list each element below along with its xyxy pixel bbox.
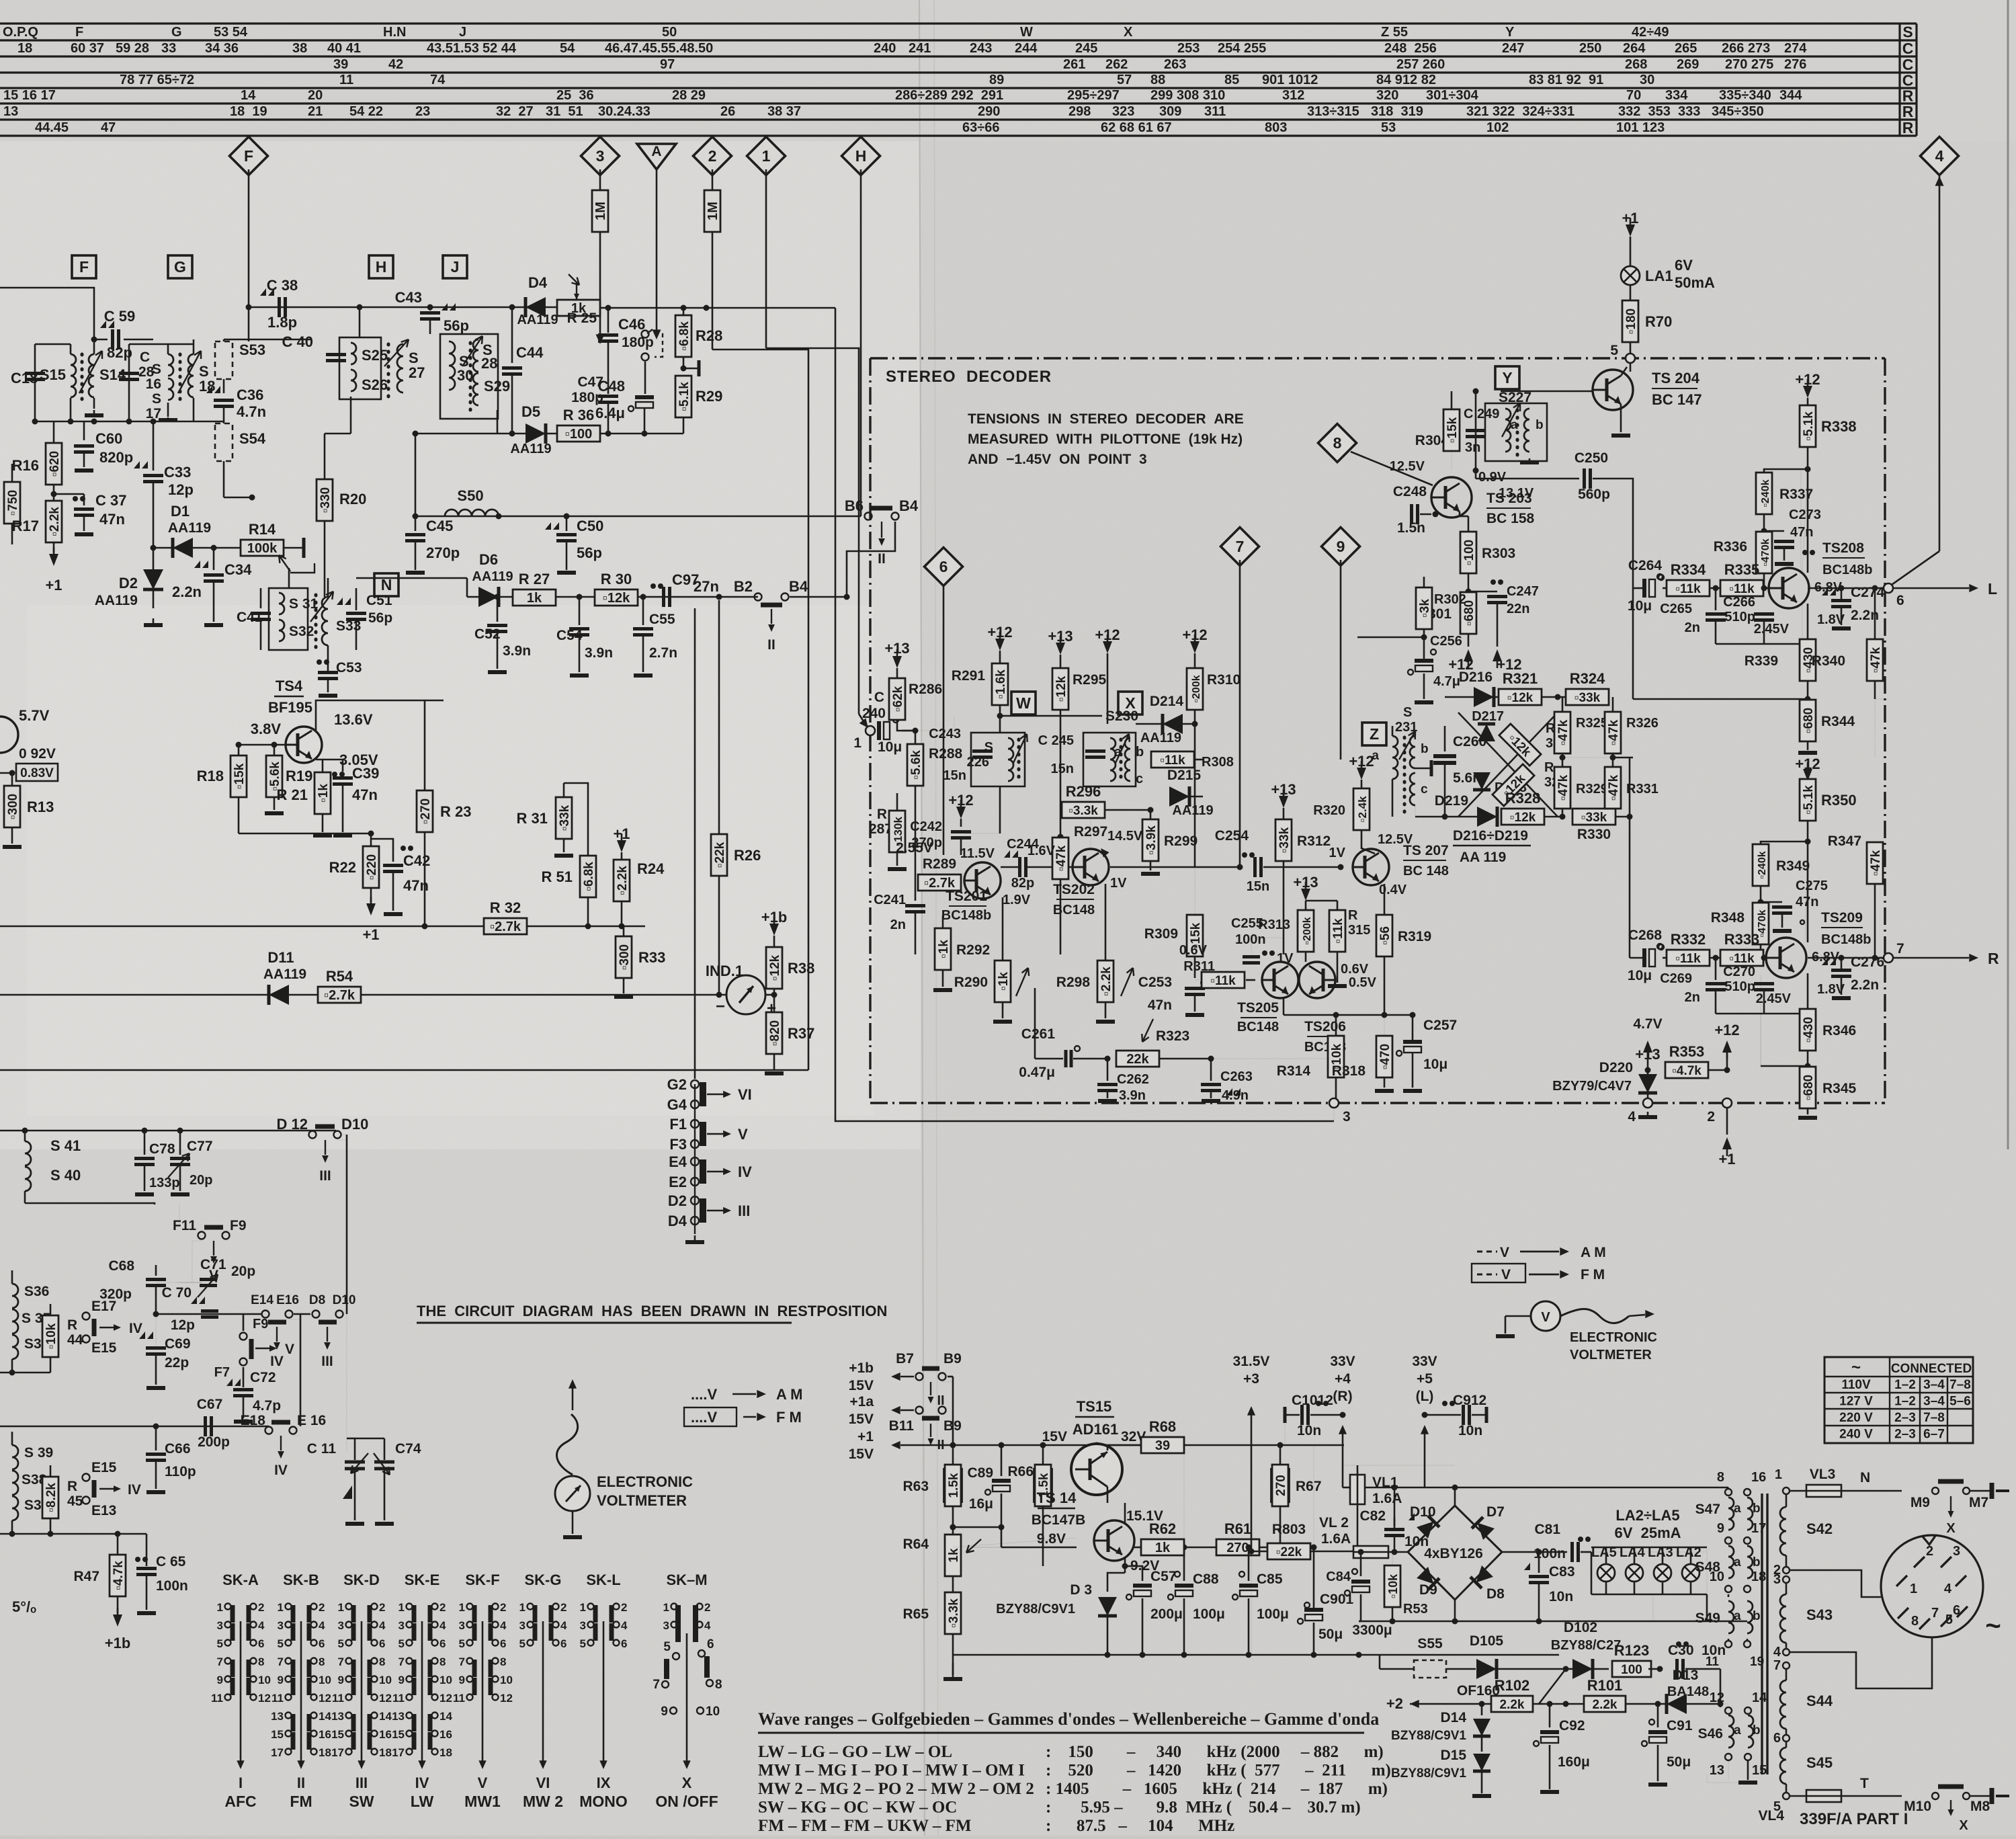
resistor R303 100	[1459, 512, 1461, 516]
svg-text:R54: R54	[326, 968, 353, 985]
resistor R326 47k	[1605, 712, 1621, 753]
capacitor C261 0.47u	[1075, 1046, 1080, 1051]
coil block S36 S35 S34	[11, 1270, 13, 1284]
svg-text:~: ~	[1851, 1358, 1861, 1377]
svg-text:C 38: C 38	[267, 277, 298, 294]
svg-text:2: 2	[560, 1601, 566, 1614]
svg-text:R326: R326	[1626, 716, 1658, 731]
diode D15 BZY88/C9V1	[1473, 1754, 1490, 1771]
svg-text:+1: +1	[613, 825, 630, 842]
svg-text:▫2.7k: ▫2.7k	[324, 988, 355, 1003]
svg-text:20: 20	[308, 88, 323, 103]
svg-text:320: 320	[1376, 88, 1398, 103]
svg-text:8: 8	[1717, 1470, 1724, 1485]
svg-text:5: 5	[398, 1637, 405, 1650]
svg-text:a: a	[1734, 1723, 1741, 1738]
svg-text:4: 4	[500, 1619, 507, 1632]
switch B11 B9	[916, 1407, 923, 1414]
wire R326 row to right	[1562, 757, 1613, 758]
svg-text:S54: S54	[239, 430, 266, 447]
capacitor C254 15n	[1242, 852, 1247, 858]
svg-text:C41: C41	[237, 610, 263, 625]
svg-text:TS4: TS4	[276, 678, 303, 694]
svg-text:100n: 100n	[1534, 1546, 1566, 1561]
supply +1	[49, 554, 58, 566]
svg-text:C46: C46	[618, 316, 645, 333]
capacitor C262 3.9n	[1107, 1059, 1109, 1081]
node 6 output L	[1808, 587, 1888, 589]
svg-text:C 11: C 11	[307, 1441, 337, 1457]
svg-text:2n: 2n	[890, 917, 906, 932]
svg-text:5: 5	[580, 1637, 586, 1650]
svg-text:AA119: AA119	[510, 442, 551, 456]
capacitor C264 10u	[1657, 574, 1663, 579]
svg-text:CONNECTED: CONNECTED	[1891, 1362, 1972, 1376]
svg-text:R292: R292	[956, 942, 990, 958]
svg-text:10μ: 10μ	[1628, 968, 1652, 983]
svg-text:9.8V: 9.8V	[1037, 1531, 1066, 1547]
svg-text:10: 10	[439, 1674, 452, 1686]
svg-text:AA119: AA119	[472, 569, 513, 584]
svg-text:299 308 310: 299 308 310	[1150, 88, 1225, 103]
svg-text:R302: R302	[1434, 592, 1466, 607]
trimmer C71 20p	[180, 1282, 202, 1283]
svg-text:C 70: C 70	[162, 1285, 192, 1301]
svg-text:F3: F3	[669, 1136, 687, 1153]
svg-text:a: a	[1734, 1555, 1741, 1569]
svg-text:2.45V: 2.45V	[1754, 622, 1790, 637]
svg-text:28: 28	[481, 355, 497, 372]
svg-text:1.5k: 1.5k	[947, 1473, 961, 1498]
svg-text:344: 344	[1779, 88, 1802, 103]
svg-text:2n: 2n	[1685, 620, 1700, 635]
svg-text:R345: R345	[1822, 1081, 1857, 1096]
resistor R31 33k	[563, 783, 565, 796]
svg-text:E15: E15	[91, 1340, 117, 1356]
svg-text:4: 4	[1628, 1109, 1636, 1125]
svg-text:4.9n: 4.9n	[1222, 1088, 1249, 1103]
svg-text:C 40: C 40	[282, 333, 313, 350]
svg-text:50: 50	[662, 25, 677, 40]
svg-text:84 912 82: 84 912 82	[1376, 73, 1436, 87]
svg-text:▫22k: ▫22k	[713, 842, 727, 868]
potentiometer R22 220	[370, 833, 372, 846]
svg-text:286÷289 292 291: 286÷289 292 291	[895, 88, 1003, 103]
svg-text:IX: IX	[597, 1774, 611, 1791]
diamond 9	[1321, 527, 1359, 565]
svg-text:R22: R22	[329, 859, 356, 876]
svg-text:7: 7	[1896, 941, 1904, 956]
svg-text:V: V	[285, 1342, 294, 1357]
svg-text:A M: A M	[1581, 1245, 1606, 1260]
svg-text:+2: +2	[1386, 1695, 1403, 1712]
resistor R26 22k	[718, 600, 720, 833]
capacitor C54 3.9n	[579, 597, 581, 625]
svg-text:0.6V: 0.6V	[1341, 962, 1369, 977]
svg-text:17: 17	[271, 1746, 284, 1759]
svg-text:R310: R310	[1207, 672, 1241, 688]
switch F9 F7 vertical	[240, 1333, 247, 1340]
svg-text:R 31: R 31	[517, 810, 548, 827]
svg-text:S36: S36	[24, 1284, 49, 1299]
svg-text:D 12: D 12	[277, 1116, 308, 1133]
svg-text:10μ: 10μ	[1628, 598, 1652, 614]
svg-text:C265: C265	[1660, 602, 1692, 616]
resistor R20 330	[325, 433, 351, 435]
resistor R38 12k	[769, 924, 779, 936]
switch B7 B9	[916, 1373, 923, 1381]
bank arrow FM	[300, 1621, 302, 1761]
transistor TS203 BC158	[1431, 477, 1472, 518]
svg-text:R296: R296	[1066, 783, 1101, 800]
svg-text:R26: R26	[734, 847, 761, 864]
wire y1378 long	[0, 926, 487, 928]
svg-text:C275: C275	[1796, 878, 1828, 893]
svg-text:....V: ....V	[691, 1386, 717, 1403]
svg-text:R 30: R 30	[601, 571, 632, 587]
resistor R28 6.8k	[683, 308, 685, 319]
resistor R340 47k	[1874, 588, 1876, 639]
switch S54 (dashed)	[215, 423, 233, 461]
arrow 31.5V +3	[1251, 1475, 1252, 1655]
svg-text:BZY79/C4V7: BZY79/C4V7	[1552, 1079, 1632, 1094]
svg-text:R286: R286	[909, 682, 942, 697]
svg-text:3.8V: 3.8V	[251, 721, 282, 737]
resistor R19 5.6k	[274, 745, 276, 758]
resistor R61 270	[1216, 1539, 1259, 1555]
svg-text:MONO: MONO	[579, 1793, 628, 1810]
svg-text:D6: D6	[479, 551, 498, 568]
svg-text:▫11k: ▫11k	[1210, 974, 1236, 988]
svg-text:18: 18	[199, 378, 215, 395]
svg-text:b: b	[1753, 1502, 1761, 1516]
svg-text:▫820: ▫820	[768, 1020, 782, 1046]
svg-text:C78: C78	[149, 1141, 175, 1157]
svg-text:263: 263	[1164, 57, 1186, 72]
svg-text:R346: R346	[1822, 1023, 1856, 1038]
svg-text:R123: R123	[1614, 1642, 1650, 1659]
svg-text:14: 14	[379, 1710, 392, 1723]
svg-text:250: 250	[1579, 41, 1601, 56]
svg-text:D15: D15	[1440, 1748, 1466, 1763]
svg-text:IND.1: IND.1	[706, 963, 743, 979]
svg-text:1–2: 1–2	[1894, 1378, 1916, 1392]
svg-text:C254: C254	[1215, 828, 1249, 844]
svg-text:47n: 47n	[352, 786, 378, 803]
svg-text:2.2n: 2.2n	[1851, 977, 1879, 993]
svg-text:C247: C247	[1507, 584, 1539, 599]
svg-text:W: W	[1016, 694, 1031, 712]
svg-text:C69: C69	[165, 1336, 191, 1352]
svg-text:12: 12	[258, 1692, 271, 1705]
svg-text:MW 2: MW 2	[523, 1793, 563, 1810]
capacitor C67 200p	[204, 1416, 207, 1436]
svg-text:▫11k: ▫11k	[1729, 582, 1755, 596]
svg-text:C82: C82	[1359, 1508, 1386, 1524]
svg-text:E16: E16	[276, 1293, 299, 1307]
resistor R309 15k	[1194, 867, 1195, 914]
svg-text:9: 9	[338, 1674, 344, 1686]
svg-text:▫2.2k: ▫2.2k	[48, 507, 62, 536]
svg-text:▫240k: ▫240k	[1760, 479, 1771, 507]
svg-text:D10: D10	[333, 1293, 356, 1307]
svg-text:C: C	[1902, 56, 1914, 73]
lamp row to rail	[1652, 1594, 1654, 1621]
svg-text:▫330: ▫330	[319, 487, 333, 513]
svg-text:G: G	[174, 258, 186, 276]
svg-text:16: 16	[1751, 1470, 1766, 1485]
svg-text:311: 311	[1204, 104, 1226, 119]
svg-text:7: 7	[1236, 538, 1245, 555]
svg-text:247: 247	[1502, 41, 1524, 56]
svg-text:10: 10	[319, 1674, 331, 1686]
svg-text:6: 6	[258, 1637, 264, 1650]
svg-text:▫470: ▫470	[1378, 1044, 1392, 1069]
capacitor C37 47n	[54, 493, 84, 495]
svg-text:TS 204: TS 204	[1652, 370, 1700, 386]
svg-text:Y: Y	[1502, 369, 1512, 386]
svg-text:D102: D102	[1564, 1620, 1597, 1635]
svg-text:46.47.45.55.48.50: 46.47.45.55.48.50	[605, 41, 713, 56]
svg-text:57: 57	[1117, 73, 1132, 87]
capacitor C48 6.4u	[635, 395, 654, 399]
resistor R51 6.8k	[580, 856, 596, 897]
svg-text:4: 4	[1944, 1582, 1952, 1596]
svg-text:+12: +12	[948, 792, 973, 809]
svg-text:23: 23	[415, 104, 430, 119]
switch E15 E13	[83, 1474, 90, 1481]
svg-text:+1b: +1b	[105, 1635, 131, 1651]
svg-text:240: 240	[862, 706, 886, 721]
potentiometer R14 100k	[214, 547, 242, 549]
wire R31 top	[564, 783, 588, 855]
svg-text:D1: D1	[171, 503, 190, 520]
svg-text:R323: R323	[1156, 1028, 1189, 1044]
svg-text:BZY88/C9V1: BZY88/C9V1	[996, 1602, 1075, 1617]
svg-text:III: III	[321, 1354, 333, 1369]
svg-text:53: 53	[1381, 120, 1396, 135]
svg-text:101 123: 101 123	[1616, 120, 1665, 135]
svg-text:820p: 820p	[99, 449, 133, 466]
tank S230 C245	[1083, 733, 1136, 786]
svg-text:1V: 1V	[1277, 951, 1294, 966]
coil S33	[314, 595, 318, 649]
svg-text:59 28: 59 28	[116, 41, 149, 56]
svg-text:BF195: BF195	[268, 699, 312, 716]
svg-text:53 54: 53 54	[214, 25, 248, 40]
svg-text:S55: S55	[1417, 1636, 1443, 1651]
svg-text:R 21: R 21	[277, 786, 308, 803]
svg-text:7–8: 7–8	[1949, 1378, 1971, 1392]
svg-text:VL3: VL3	[1810, 1467, 1836, 1482]
resistor R319 56	[1384, 884, 1386, 914]
svg-text:LW – LG – GO – LW – OL: LW – LG – GO – LW – OL	[758, 1743, 952, 1761]
svg-text:18: 18	[319, 1746, 331, 1759]
svg-text:102: 102	[1486, 120, 1509, 135]
bridge diagonals	[1458, 712, 1558, 817]
svg-text:83 81 92 91: 83 81 92 91	[1529, 73, 1603, 87]
svg-text:0 92V: 0 92V	[19, 746, 56, 762]
svg-text:C264: C264	[1628, 558, 1663, 573]
capacitor C273 47n	[1764, 530, 1784, 532]
svg-text:269: 269	[1677, 57, 1699, 72]
svg-text:R313: R313	[1258, 917, 1290, 932]
resistor R339 430	[1807, 604, 1809, 639]
svg-text:V: V	[1500, 1245, 1509, 1260]
svg-text:▫62k: ▫62k	[891, 686, 905, 712]
resistor R70 180	[1622, 300, 1638, 342]
capacitor C97 27n	[650, 583, 656, 589]
wire C70 row	[156, 1313, 262, 1315]
svg-text:47n: 47n	[1790, 525, 1813, 540]
svg-text:+13: +13	[1293, 874, 1318, 891]
svg-text:R: R	[1348, 908, 1358, 923]
svg-text:50μ: 50μ	[1318, 1627, 1343, 1642]
transformer core	[1761, 1494, 1763, 1774]
svg-text:3: 3	[217, 1619, 223, 1632]
svg-text:D13: D13	[1673, 1668, 1699, 1683]
svg-text:G4: G4	[667, 1096, 687, 1113]
svg-text:1.6A: 1.6A	[1321, 1531, 1351, 1547]
svg-text:▫100: ▫100	[1462, 540, 1476, 565]
svg-text:5°/ₒ: 5°/ₒ	[12, 1598, 36, 1615]
svg-text:34 36: 34 36	[205, 41, 239, 56]
svg-text:39: 39	[333, 57, 348, 72]
svg-text:40 41: 40 41	[327, 41, 361, 56]
wire W to TS201 base	[964, 833, 1000, 834]
svg-text:D5: D5	[521, 403, 540, 420]
svg-text:1: 1	[762, 147, 771, 165]
stereo decoder border bottom	[870, 1102, 1885, 1104]
svg-text:S50: S50	[457, 487, 483, 504]
svg-text:BC148b: BC148b	[1821, 932, 1871, 947]
svg-text:+1b: +1b	[849, 1360, 874, 1376]
svg-text:4xBY126: 4xBY126	[1424, 1546, 1483, 1561]
line from S46 to C91	[1728, 1760, 1729, 1780]
svg-text:100μ: 100μ	[1257, 1606, 1289, 1622]
svg-text:270: 270	[1274, 1475, 1288, 1496]
svg-text:244: 244	[1015, 41, 1038, 56]
svg-text:C33: C33	[164, 464, 191, 481]
svg-text:12: 12	[500, 1692, 513, 1705]
svg-text:F: F	[75, 25, 83, 40]
svg-text:+1a: +1a	[849, 1394, 874, 1409]
resistor R21 1k	[316, 760, 323, 773]
svg-text:a: a	[1734, 1609, 1741, 1623]
fuse VL4	[1790, 1795, 1806, 1797]
svg-text:▫47k: ▫47k	[1556, 774, 1570, 801]
svg-text:MW I – MG I – PO I – MW I – OM: MW I – MG I – PO I – MW I – OM I	[758, 1762, 1025, 1780]
svg-text:3–4: 3–4	[1923, 1378, 1945, 1392]
resistor R299 3.9k	[1150, 810, 1152, 819]
svg-text:54: 54	[560, 41, 575, 56]
svg-text:335÷340: 335÷340	[1719, 88, 1771, 103]
svg-text:C81: C81	[1534, 1522, 1560, 1537]
capacitor C265 2n	[1715, 588, 1717, 610]
connector triangle A	[637, 144, 676, 169]
svg-text:▫1k: ▫1k	[997, 972, 1011, 991]
svg-text:1V: 1V	[1329, 846, 1346, 860]
svg-text:▫5.1k: ▫5.1k	[677, 382, 691, 411]
resistor R27 1k	[513, 589, 556, 606]
svg-text:+1: +1	[45, 577, 62, 594]
svg-text:10μ: 10μ	[1423, 1057, 1447, 1072]
svg-text:S46: S46	[1698, 1726, 1723, 1742]
svg-text:J: J	[451, 258, 460, 276]
svg-text:BA148: BA148	[1667, 1684, 1709, 1699]
svg-text:10n: 10n	[1297, 1423, 1321, 1438]
svg-text:▫11k: ▫11k	[1331, 918, 1345, 944]
svg-text:MW1: MW1	[464, 1793, 501, 1810]
svg-text:274: 274	[1784, 41, 1807, 56]
svg-text:▫200k: ▫200k	[1191, 675, 1202, 702]
sheet right border	[2007, 0, 2009, 1149]
svg-text:R 51: R 51	[542, 868, 573, 885]
oscillator line x1203	[712, 350, 808, 1070]
connector stack G2-D4	[694, 1070, 696, 1079]
svg-text:44: 44	[67, 1332, 83, 1348]
svg-text:C85: C85	[1257, 1571, 1283, 1587]
capacitor C275 47n	[1761, 901, 1782, 903]
svg-text:C253: C253	[1138, 975, 1172, 990]
svg-text:b: b	[1753, 1555, 1761, 1569]
resistor R24 2.2k	[617, 840, 626, 852]
svg-text:R67: R67	[1296, 1479, 1322, 1494]
svg-text:R328: R328	[1505, 790, 1541, 807]
svg-text:16: 16	[379, 1728, 392, 1741]
svg-text:3n: 3n	[1465, 440, 1480, 455]
svg-text:220 V: 220 V	[1839, 1411, 1873, 1425]
terminal bar	[683, 368, 699, 370]
svg-text:Z 55: Z 55	[1381, 25, 1408, 40]
svg-text:C242: C242	[910, 819, 942, 834]
svg-text:▫2.7k: ▫2.7k	[490, 919, 521, 934]
svg-text:+13: +13	[1271, 781, 1296, 798]
svg-text:4: 4	[379, 1619, 386, 1632]
svg-text:R290: R290	[954, 975, 988, 990]
svg-text:16: 16	[439, 1728, 452, 1741]
resistor R750	[4, 482, 20, 524]
svg-text:R308: R308	[1202, 755, 1234, 770]
svg-text:+13: +13	[884, 640, 909, 657]
svg-text:11: 11	[332, 1692, 344, 1705]
svg-text:50mA: 50mA	[1675, 274, 1715, 291]
svg-text:▫8.2k: ▫8.2k	[44, 1483, 58, 1512]
svg-text:100: 100	[1621, 1663, 1642, 1677]
svg-text:▫180: ▫180	[1624, 309, 1638, 334]
resistor R63 1.5k	[952, 1445, 954, 1464]
potentiometer R323 22k	[1105, 1056, 1111, 1062]
svg-text:3: 3	[519, 1619, 526, 1632]
capacitor C68 320p	[155, 1265, 157, 1276]
svg-text:BC148: BC148	[1237, 1020, 1279, 1034]
svg-text:18: 18	[379, 1746, 392, 1759]
svg-text:R347: R347	[1828, 833, 1861, 849]
svg-text:20p: 20p	[231, 1264, 255, 1279]
capacitor C36 4.7n	[214, 399, 234, 402]
svg-text:R339: R339	[1745, 653, 1778, 669]
svg-text:3: 3	[398, 1619, 405, 1632]
svg-text:4: 4	[1935, 147, 1944, 165]
svg-text:▫4.7k: ▫4.7k	[112, 1561, 126, 1590]
svg-text:9: 9	[398, 1674, 405, 1686]
svg-text:R803: R803	[1272, 1522, 1306, 1537]
left enclosure lines	[0, 1069, 808, 1071]
svg-text:12: 12	[319, 1692, 331, 1705]
svg-text:▫3.9k: ▫3.9k	[1144, 825, 1159, 855]
svg-text:265: 265	[1675, 41, 1697, 56]
resistor R62 1k	[1141, 1539, 1184, 1555]
